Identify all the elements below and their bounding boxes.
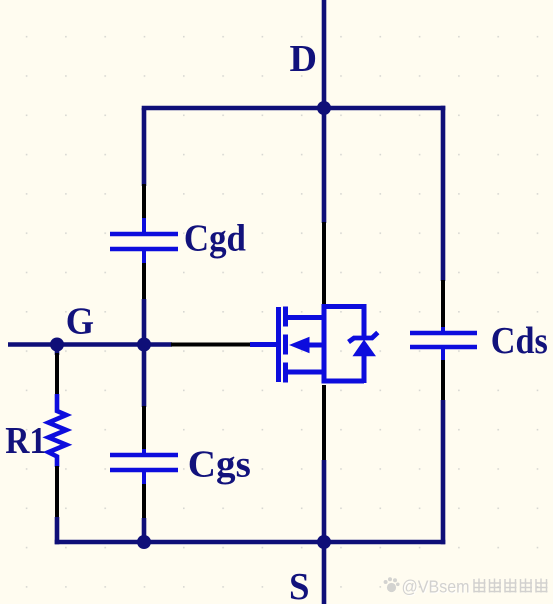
capacitor Cds	[410, 333, 477, 347]
pin: Cgs bottom pin (black)	[142, 484, 146, 519]
pin: Cgs top pin (black)	[142, 406, 146, 450]
diode D1 (body diode, zener style)	[324, 304, 378, 383]
label G	[66, 300, 94, 342]
label R1	[5, 420, 46, 462]
wire: drain vertical from top edge to node D	[322, 0, 327, 108]
pin: drain pin (black)	[322, 222, 326, 305]
pin: source pin (black)	[322, 385, 326, 461]
wire: R1 branch top stub	[55, 345, 60, 356]
wire: left branch lower segment (Cgs to bottom rail)	[142, 518, 147, 542]
pin: Cgs bottom lead (blue)	[142, 470, 146, 485]
node G junction dot (R1 tap)	[50, 338, 64, 352]
svg-text:G: G	[66, 300, 94, 342]
wire: center vertical (node D to drain pin)	[322, 108, 327, 223]
wire: center vertical (source pin to bottom rail)	[322, 460, 327, 542]
svg-text:@VBsem: @VBsem	[402, 577, 470, 597]
pin: gate pin (black)	[171, 343, 251, 347]
pin: Cds bottom pin (black)	[441, 360, 445, 401]
label D	[290, 38, 318, 80]
svg-text:Cgs: Cgs	[188, 444, 251, 486]
pin: Cgd bottom lead (blue)	[142, 249, 146, 264]
capacitor Cgs	[110, 455, 178, 470]
pin: Cgd top lead (blue)	[142, 218, 146, 234]
node D junction dot	[317, 101, 331, 115]
wire: left branch upper segment (node D rail to Cgd)	[142, 108, 147, 186]
node S junction dot (center)	[317, 535, 331, 549]
pin: R1 top pin (black)	[55, 353, 59, 395]
wire: right branch lower segment (Cds to bottom rail)	[441, 400, 446, 544]
svg-text:S: S	[289, 566, 310, 604]
pin: Cds top pin (black)	[441, 280, 445, 328]
label Cds	[491, 320, 548, 362]
node S junction dot (left)	[137, 535, 151, 549]
wire: R1 branch bottom segment	[55, 517, 60, 544]
svg-text:Cds: Cds	[491, 320, 548, 362]
label Cgd	[184, 218, 246, 260]
transistor Q1 (MOSFET body)	[250, 304, 327, 384]
wire: right branch upper segment (top rail to Cds)	[441, 106, 446, 281]
svg-text:Cgd: Cgd	[184, 218, 246, 260]
watermark	[384, 577, 548, 598]
wire: gate horizontal from left edge	[8, 342, 172, 347]
label S	[289, 566, 310, 604]
wire: bottom horizontal rail	[55, 540, 446, 545]
pin: Cgs top lead (blue)	[142, 449, 146, 455]
pin: R1 bottom pin (black)	[55, 466, 59, 518]
pin: Cds top lead (blue)	[441, 327, 445, 333]
capacitor Cgd	[110, 234, 178, 249]
wire: top horizontal rail	[142, 106, 446, 111]
label Cgs	[188, 444, 251, 486]
svg-text:R1: R1	[5, 420, 46, 462]
resistor R1	[48, 394, 66, 467]
pin: Cgd bottom pin (black)	[142, 263, 146, 300]
pin: Cds bottom lead (blue)	[441, 347, 445, 361]
wire: source vertical to bottom edge	[322, 542, 327, 604]
node G junction dot (Cgd/Cgs branch)	[137, 338, 151, 352]
pin: Cgd top pin (black)	[142, 184, 146, 219]
svg-text:D: D	[290, 38, 318, 80]
wire: left branch middle segment (Cgd to node G)	[142, 299, 147, 407]
